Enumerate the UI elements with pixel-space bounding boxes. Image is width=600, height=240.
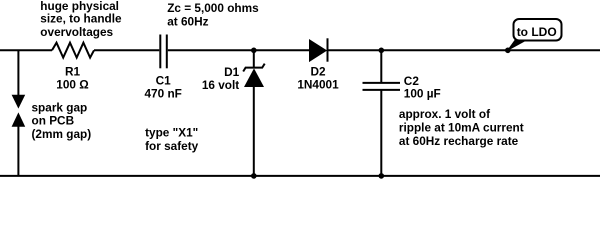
svg-text:at 60Hz recharge rate: at 60Hz recharge rate [399,134,519,148]
wire top rail D2 to right edge [329,49,600,51]
svg-text:470 nF: 470 nF [145,87,182,101]
capacitor C2 [363,83,401,90]
svg-text:100 Ω: 100 Ω [56,77,88,91]
wire bottom rail [0,175,600,177]
svg-text:overvoltages: overvoltages [40,25,113,39]
svg-text:Zc = 5,000 ohms: Zc = 5,000 ohms [167,1,259,15]
svg-text:C1: C1 [156,73,172,87]
node zener top junction [251,48,257,54]
diode D2 [310,38,328,61]
capacitor C1 [160,35,167,69]
wire D1 branch upper [253,50,255,67]
wire left branch lower [17,126,19,175]
svg-text:on PCB: on PCB [32,114,75,128]
svg-text:approx. 1 volt of: approx. 1 volt of [399,107,490,121]
svg-text:ripple at 10mA current: ripple at 10mA current [399,121,524,135]
node C2 bottom junction [379,173,385,179]
node to LDO callout box [514,19,562,41]
wire C2 branch upper [380,50,382,82]
svg-text:to LDO: to LDO [517,25,557,39]
spark gap [12,95,26,127]
wire top rail R1 to C1 [94,49,159,51]
wire callout tail [506,39,526,52]
svg-text:size, to handle: size, to handle [40,12,122,26]
node C2 top junction [379,48,385,54]
svg-text:at 60Hz: at 60Hz [167,14,208,28]
wire top rail left segment [0,49,52,51]
svg-text:100 µF: 100 µF [404,86,441,100]
svg-text:spark gap: spark gap [32,100,88,114]
svg-text:16 volt: 16 volt [202,78,239,92]
svg-text:type "X1": type "X1" [145,125,198,139]
resistor R1 [52,43,94,58]
svg-text:for safety: for safety [145,139,199,153]
wire C2 branch lower [380,91,382,176]
node zener bottom junction [251,173,257,179]
node LDO tap junction [505,48,511,54]
zener diode D1 [243,64,265,87]
wire left branch upper [17,50,19,95]
wire top rail C1 to D2 [168,49,311,51]
wire D1 branch lower [253,87,255,176]
svg-text:(2mm gap): (2mm gap) [32,127,92,141]
svg-text:1N4001: 1N4001 [297,77,339,91]
